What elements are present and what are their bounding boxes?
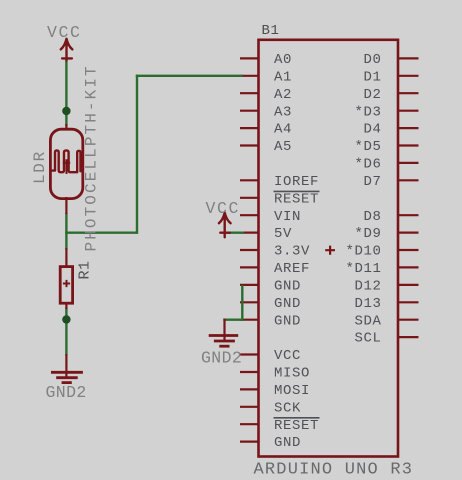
pin A2 (left row 2) (240, 92, 259, 94)
svg-text:D1: D1 (364, 69, 382, 85)
svg-text:*D10: *D10 (346, 244, 382, 260)
svg-text:SCK: SCK (274, 400, 301, 416)
ground near box bar1 (209, 334, 239, 337)
pin A0 (left row 0) (240, 57, 259, 59)
junction on VCC net (62, 107, 70, 115)
svg-text:D7: D7 (364, 174, 382, 190)
svg-text:*D6: *D6 (355, 157, 382, 173)
wire GND bus to ground symbol (223, 319, 243, 321)
pin D1 (right row 1) (398, 75, 419, 77)
svg-text:A5: A5 (274, 139, 292, 155)
svg-text:ARDUINO UNO R3: ARDUINO UNO R3 (254, 461, 414, 476)
svg-text:AREF: AREF (274, 261, 310, 277)
pin RESET (left row 8) (240, 197, 259, 199)
svg-text:GND: GND (274, 296, 301, 312)
pin 3.3V (left row 11) (240, 249, 259, 251)
pin D2 (right row 2) (398, 92, 419, 94)
svg-text:3.3V: 3.3V (274, 244, 310, 260)
svg-text:VCC: VCC (206, 199, 241, 218)
svg-text:VIN: VIN (274, 209, 301, 225)
svg-text:RESET: RESET (274, 191, 319, 207)
pin D7 (right row 7) (398, 179, 419, 181)
pin A1 (left row 1) (240, 75, 259, 77)
pin SDA (right row 15) (398, 319, 419, 321)
supply symbol VCC (near 5V pin) (219, 213, 231, 238)
wire A1 net horizontal to pin A1 (136, 75, 243, 77)
svg-text:*D5: *D5 (355, 139, 382, 155)
wire A1 net horizontal lower (65, 231, 137, 233)
svg-text:PHOTOCELLPTH-KIT: PHOTOCELLPTH-KIT (83, 64, 101, 251)
wire VCC net vertical (VCC symbol to LDR) (65, 61, 67, 127)
svg-text:RESET: RESET (274, 418, 319, 434)
pin MOSI (left row 19) (240, 388, 259, 390)
ground symbol GND2 (near box) stem (223, 319, 225, 341)
pin GND (left row 15) (240, 319, 259, 321)
svg-text:GND: GND (274, 313, 301, 329)
svg-text:GND2: GND2 (46, 383, 87, 402)
ground GND2 bar2 (56, 376, 77, 379)
ground near box bar2 (214, 340, 235, 343)
pin AREF (left row 12) (240, 266, 259, 268)
wire LDR to R1 (65, 213, 67, 250)
ground GND2 bar1 (51, 371, 83, 374)
pin GND (left row 13) (240, 284, 259, 286)
wire VCC2 to 5V pin (225, 231, 244, 233)
svg-text:B1: B1 (262, 23, 280, 39)
junction on GND2 net (62, 315, 70, 323)
pin *D11 (right row 12) (398, 266, 419, 268)
pin D8 (right row 9) (398, 214, 419, 216)
pin GND (left row 22) (240, 441, 259, 443)
pin D0 (right row 0) (398, 57, 419, 59)
svg-text:D8: D8 (364, 209, 382, 225)
svg-text:GND2: GND2 (201, 348, 242, 367)
svg-text:*D9: *D9 (355, 226, 382, 242)
pin *D3 (right row 3) (398, 110, 419, 112)
ground GND2 bar3 (62, 381, 72, 384)
photocell LDR pin top (65, 124, 67, 130)
svg-text:VCC: VCC (47, 23, 82, 42)
photocell LDR pin bottom (65, 197, 67, 214)
resistor R1 pin bottom (65, 303, 67, 309)
svg-text:IOREF: IOREF (274, 174, 319, 190)
pin RESET (left row 21) (240, 423, 259, 425)
pin *D5 (right row 5) (398, 144, 419, 146)
svg-text:D0: D0 (364, 52, 382, 68)
svg-text:LDR: LDR (31, 150, 49, 184)
ground symbol GND2 (bottom-left) stem (65, 354, 67, 378)
ground near box bar3 (219, 345, 229, 348)
pin SCL (right row 16) (398, 336, 419, 338)
svg-text:GND: GND (274, 279, 301, 295)
photocell LDR resistive meander (50, 150, 82, 172)
pin D4 (right row 4) (398, 127, 419, 129)
supply symbol VCC (top-left) (61, 39, 73, 61)
pin *D9 (right row 10) (398, 232, 419, 234)
pin VCC (left row 17) (240, 353, 259, 355)
svg-text:SCL: SCL (355, 331, 382, 347)
pin A3 (left row 3) (240, 110, 259, 112)
svg-text:A4: A4 (274, 122, 292, 138)
wire A1 net vertical (136, 75, 138, 234)
svg-text:D12: D12 (355, 279, 382, 295)
svg-text:MISO: MISO (274, 366, 310, 382)
svg-text:*D3: *D3 (355, 104, 382, 120)
svg-text:A3: A3 (274, 104, 292, 120)
svg-text:SDA: SDA (355, 313, 382, 329)
svg-text:D4: D4 (364, 122, 382, 138)
origin cross of LDR (63, 159, 70, 174)
pin IOREF (left row 7) (240, 179, 259, 181)
pin GND (left row 14) (240, 301, 259, 303)
svg-text:D13: D13 (355, 296, 382, 312)
origin cross of R1 (63, 280, 70, 287)
pin A4 (left row 4) (240, 127, 259, 129)
pin VIN (left row 9) (240, 214, 259, 216)
svg-text:5V: 5V (274, 226, 292, 242)
resistor R1 pin top (65, 248, 67, 267)
svg-text:*D11: *D11 (346, 261, 382, 277)
pin D12 (right row 13) (398, 284, 419, 286)
svg-text:VCC: VCC (274, 348, 301, 364)
svg-text:R1: R1 (77, 260, 94, 279)
pin 5V (left row 10) (240, 232, 259, 234)
origin cross of B1 (325, 246, 335, 255)
photocell LDR body (50, 129, 82, 198)
wire R1 to GND2 (65, 308, 67, 356)
arduino module B1 box (259, 40, 399, 457)
pin MISO (left row 18) (240, 371, 259, 373)
pin *D10 (right row 11) (398, 249, 419, 251)
svg-text:GND: GND (274, 435, 301, 451)
pin A5 (left row 5) (240, 144, 259, 146)
pin D13 (right row 14) (398, 301, 419, 303)
svg-text:A0: A0 (274, 52, 292, 68)
svg-text:A2: A2 (274, 87, 292, 103)
pin SCK (left row 20) (240, 406, 259, 408)
svg-text:D2: D2 (364, 87, 382, 103)
resistor R1 body (60, 267, 72, 304)
svg-text:MOSI: MOSI (274, 383, 310, 399)
pin *D6 (right row 6) (398, 162, 419, 164)
wire GND pins vertical bus (241, 285, 243, 321)
svg-text:A1: A1 (274, 69, 292, 85)
